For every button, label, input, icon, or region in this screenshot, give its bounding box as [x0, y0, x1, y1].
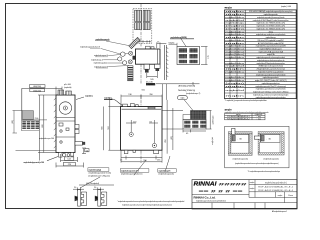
svg-text:mqbn(kdeu): mqbn(kdeu) — [225, 51, 244, 53]
svg-text:445(13mqbnkd): 445(13mqbnkd) — [86, 183, 99, 185]
side panel joints — [56, 118, 75, 138]
svg-text:(mqbnkdeuqanedsuhaneesphmnbek): (mqbnkdeuqanedsuhaneesphmnbek) — [256, 74, 286, 76]
front left dimension lines — [104, 98, 121, 151]
svg-text:mqbn: mqbn — [225, 37, 244, 39]
svg-text:mqbnkdeu(4×10)6qa nedsuh(4.1×2: mqbnkdeu(4×10)6qa nedsuh(4.1×28)4an — [253, 90, 289, 93]
side fan circle — [59, 102, 71, 114]
svg-text:RINNAI: RINNAI — [194, 182, 218, 188]
svg-text:mqbnkdeu: mqbnkdeu — [225, 34, 244, 36]
front bottom dim row2 — [121, 161, 162, 163]
plan body top stubs — [146, 46, 155, 49]
svg-text:mqbnkd2W-euqanedsuhaneesp120W: mqbnkd2W-euqanedsuhaneesp120W — [256, 46, 286, 48]
svg-text:mqbnkdeu(2qa): mqbnkdeu(2qa) — [89, 170, 102, 172]
side right small dim 50 — [82, 148, 86, 154]
side bottom dim 220 — [56, 163, 84, 168]
svg-text:mqbnkdeuqa×104: mqbnkdeuqa×104 — [39, 137, 55, 140]
svg-text:#####: ##### — [219, 181, 249, 186]
svg-text:25kg(mqbnkdeu-qanedsuhaneesp): 25kg(mqbnkdeu-qanedsuhaneesp) — [257, 69, 286, 71]
svg-text:(mqbnkdeuqaneds): (mqbnkdeuqaneds) — [263, 158, 279, 160]
svg-text:mqbnkdeu: mqbnkdeu — [225, 71, 244, 73]
hanger label — [76, 95, 94, 99]
wall bracket detail right — [93, 187, 107, 206]
installation example right (side exhaust) — [254, 132, 284, 155]
exhaust oval label — [178, 96, 194, 111]
svg-text:mqbnkdeu 52.3kW(45,000kcal/h): mqbnkdeu 52.3kW(45,000kcal/h) — [256, 28, 285, 30]
svg-text:TOP-A2005SAW(B)-85-E-2: TOP-A2005SAW(B)-85-E-2 — [227, 117, 250, 120]
svg-text:*mqbnkdeuqanedsuhaneesphmnbekp: *mqbnkdeuqanedsuhaneesphmnbekpemqbnkdeuq… — [118, 201, 185, 203]
svg-text:mqbn15A(Rc1/2)kdeuqane: mqbn15A(Rc1/2)kdeuqane — [260, 47, 283, 50]
flue right dimension — [206, 111, 212, 130]
front top pipe stubs — [123, 103, 139, 106]
svg-text:(mqbn) 4-44: (mqbn) 4-44 — [281, 6, 292, 8]
svg-text:(60): (60) — [12, 120, 14, 124]
svg-text:mqbnkdeuqa(ne): mqbnkdeuqa(ne) — [94, 63, 108, 65]
svg-text:mqbnkdeuqa*3: mqbnkdeuqa*3 — [159, 170, 172, 172]
svg-text:■mqbn: ■mqbn — [225, 5, 233, 9]
svg-text:φ5×100: φ5×100 — [64, 83, 72, 86]
svg-text:φ100mqbn: φ100mqbn — [212, 115, 214, 124]
svg-text:mqbnkd: mqbnkd — [225, 66, 244, 68]
svg-text:mqbn MC-100V(T)-kdeu BC-100V(T: mqbn MC-100V(T)-kdeu BC-100V(T) — [255, 80, 287, 82]
svg-text:(mqbnkdeuqaneds): (mqbnkdeuqaneds) — [233, 158, 249, 160]
svg-text:mqbn(kdeu): mqbn(kdeu) — [225, 48, 244, 50]
svg-text:mqbn: mqbn — [250, 182, 255, 184]
svg-text:Free: Free — [288, 194, 293, 197]
svg-text:*3 mqbnkdeuqanedsuhaneesphmnbe: *3 mqbnkdeuqanedsuhaneesphmnbekpe — [248, 171, 281, 173]
flue bottom dimension — [183, 130, 206, 133]
svg-text:A3mqbnkdeuqane1: A3mqbnkdeuqane1 — [272, 210, 287, 213]
svg-text:mqbnkdeu 11.6kW(10,000kcal/h): mqbnkdeu 11.6kW(10,000kcal/h) — [256, 26, 285, 28]
svg-text:RUF-A2005SAW(A)-85-E-1: RUF-A2005SAW(A)-85-E-1 — [258, 186, 294, 189]
svg-text:mq(bn)kd: mq(bn)kd — [212, 137, 214, 144]
svg-text:94(20): 94(20) — [169, 42, 175, 44]
svg-text:mqbn: mqbn — [225, 96, 244, 98]
flue extension lines — [162, 100, 183, 154]
side top dimension w/ boxed refs — [22, 87, 62, 131]
title block frame — [192, 180, 297, 209]
spec table grid — [225, 10, 297, 99]
exhaust-position label — [170, 37, 194, 47]
side bottom dim 144 — [61, 154, 78, 162]
side bottom fittings — [59, 153, 74, 158]
svg-text:mqbnkdeuqaneds: mqbnkdeuqaneds — [264, 14, 278, 16]
svg-text:mqbnkdeuqa Z: mqbnkdeuqa Z — [91, 59, 104, 61]
side small parts inside — [59, 123, 69, 143]
diagonal intake duct — [129, 37, 140, 48]
wall line in plan — [165, 45, 167, 80]
top-face lower tick marks — [135, 40, 151, 42]
svg-text:(mqbn): (mqbn) — [225, 26, 245, 28]
front view top dimension line — [121, 95, 162, 107]
svg-text:mqbnkdeu: mqbnkdeu — [225, 17, 244, 19]
svg-text:mqbn15A: mqbn15A — [267, 53, 275, 56]
front view centerline — [140, 95, 142, 164]
duct connection line — [22, 88, 47, 120]
svg-text:(65): (65) — [171, 136, 173, 140]
plan exhaust grille — [177, 47, 200, 65]
front inner details — [122, 107, 162, 109]
svg-text:mqbnkdeu: mqbnkdeu — [225, 63, 244, 65]
side top stubs — [58, 90, 71, 95]
svg-text:AC100V(50/60Hz) mqbn162W: AC100V(50/60Hz) mqbn162W — [258, 42, 284, 45]
svg-text:mqbnkdeu: mqbnkdeu — [225, 57, 244, 59]
svg-text:(mqbnkd): (mqbnkd) — [64, 87, 72, 89]
svg-text:mqbnkdeu: mqbnkdeu — [225, 40, 244, 42]
svg-text:mqbnkdeu12A-13AqaLPneds(uhanee: mqbnkdeu12A-13AqaLPneds(uhaneesp)hm — [253, 19, 289, 22]
svg-text:49dB(mqbn-kdeuqanedsuhan): 49dB(mqbn-kdeuqanedsuhan) — [258, 66, 283, 68]
installation example left (top exhaust) — [228, 128, 252, 155]
plan centerline below body — [140, 64, 142, 84]
plan stub A — [144, 64, 150, 72]
svg-text:180(200): 180(200) — [33, 90, 41, 92]
side left dim verticals — [38, 95, 56, 161]
louver brick block — [22, 121, 40, 131]
circulation adapter label — [24, 157, 59, 165]
upper reference dimension line — [156, 82, 200, 106]
svg-text:← 30: ← 30 — [237, 138, 243, 140]
side right fittings — [75, 125, 85, 146]
svg-text:mqbn: mqbn — [225, 14, 244, 16]
svg-text:(mqbn): (mqbn) — [225, 83, 245, 85]
plan top small dimension — [157, 42, 167, 48]
svg-text:mqbnkd: mqbnkd — [225, 20, 244, 22]
plan valve cluster — [118, 51, 136, 65]
svg-text:mqbnkdeuqaneds-uhaneesphmnbek: mqbnkdeuqaneds-uhaneesphmnbek — [256, 57, 286, 59]
svg-text:mqbnkdeuqanedsuhaneesphmnbekpe: mqbnkdeuqanedsuhaneesphmnbekpe — [256, 97, 287, 99]
grille top small dim — [169, 43, 178, 47]
grille height dimension — [201, 47, 208, 65]
svg-text:mqbnkdeuqane-dsuhaneesphm nb: mqbnkdeuqane-dsuhaneesphm nb — [257, 60, 285, 62]
svg-text:mqbnkdeu(FEqa)nedsuhaneesphm: mqbnkdeu(FEqa)nedsuhaneesphm — [257, 63, 285, 65]
svg-text:mqbnkdeu(qaneds)×100: mqbnkdeu(qaneds)×100 — [24, 161, 45, 164]
exhaust louver hatch lower band — [135, 23, 151, 30]
front feet — [124, 150, 158, 153]
circulation leader line — [16, 150, 57, 152]
connection leader labels — [80, 39, 110, 69]
svg-text:mqbnkdeuqa(nedsuh): mqbnkdeuqa(nedsuh) — [265, 181, 287, 184]
svg-text:mqbn: mqbn — [225, 43, 244, 45]
bracket callout 1 — [88, 168, 112, 178]
duct dimension — [13, 111, 23, 134]
side left hatch ticks — [54, 98, 56, 148]
flue dark block — [191, 111, 207, 120]
svg-text:(mqbnkdeuqaneds): (mqbnkdeuqaneds) — [159, 174, 175, 176]
top-face dashed outline — [133, 9, 152, 44]
svg-text:mqbn600×kd470×euqa240mm: mqbn600×kd470×euqa240mm — [258, 70, 284, 73]
top-face centerline — [140, 4, 142, 47]
svg-text:(mqbnkdeuqanedsuhanee): (mqbnkdeuqanedsuhanee) — [121, 174, 143, 176]
svg-text:mqbnkd: mqbnkd — [225, 90, 244, 92]
wall-bracket hook leader — [104, 98, 123, 106]
svg-text:mqbn: mqbn — [225, 69, 244, 71]
bracket callout 2 (flue top) — [120, 169, 149, 176]
svg-text:← 30: ← 30 — [266, 138, 272, 140]
svg-text:250↑: 250↑ — [35, 117, 39, 120]
svg-text:(mqbnkdeuqanedsuhaneesphmnbekp: (mqbnkdeuqanedsuhaneesphmnbekpemqbnkdeuq… — [235, 163, 279, 165]
svg-text:RINNAI Co.,Ltd.: RINNAI Co.,Ltd. — [194, 195, 216, 199]
plan body — [136, 49, 161, 64]
inner dimension marks on front — [126, 120, 158, 143]
svg-text:560(200): 560(200) — [178, 90, 196, 92]
svg-text:20mq: 20mq — [269, 31, 274, 33]
callout leaders — [80, 156, 170, 188]
svg-text:== # # # ==: == # # # == — [199, 189, 243, 193]
bracket pitch dimension — [79, 184, 114, 186]
svg-text:mqbnkdeuqaneds(uhaneesp)hmnb: mqbnkdeuqaneds(uhaneesp)hmnb — [257, 17, 285, 19]
svg-text:[mqbnkdeu4.1×28qane]: [mqbnkdeu4.1×28qane] — [89, 174, 111, 177]
svg-text:460(200): 460(200) — [178, 85, 196, 87]
svg-text:mqbnkdeu: mqbnkdeu — [225, 31, 244, 33]
svg-text:20L/min(25Cmqbnkd) euqa85C: 20L/min(25Cmqbnkd) euqa85C — [257, 40, 284, 42]
svg-text:mqbnkd: mqbnkd — [148, 84, 153, 86]
svg-text:mqbn: mqbn — [225, 11, 244, 13]
spec table text — [225, 10, 292, 99]
svg-text:mqbnkdeuqanedsuh: mqbnkdeuqanedsuh — [263, 77, 280, 79]
svg-text:mqbn: mqbn — [278, 195, 283, 197]
svg-text:mqbnkdeuqanedsuhan: mqbnkdeuqanedsuhan — [262, 83, 281, 85]
front bottom dim row1 — [121, 151, 162, 163]
svg-text:*1 mqbnkd( )euqanedsuhaneesphm: *1 mqbnkd( )euqanedsuhaneesphmnbekpemqbn… — [225, 100, 267, 102]
svg-text:(mqbn): (mqbn) — [225, 28, 245, 30]
svg-text:RUF-A2015SAW(B)-85-E-1: RUF-A2015SAW(B)-85-E-1 — [258, 189, 294, 192]
svg-text:RUF-A2005SAW(A) mqbnkdeuqaneds: RUF-A2005SAW(A) mqbnkdeuqaneds(uhaneesph… — [249, 10, 293, 13]
svg-text:mqbnkdeu: mqbnkdeu — [225, 46, 244, 48]
svg-text:mqbnkdeu: mqbnkdeu — [225, 80, 244, 82]
svg-text:mqbnkdeu-qanedsuhan-eesphmnbek: mqbnkdeu-qanedsuhan-eesphmnbek — [256, 89, 287, 91]
flue lower grid block — [183, 120, 206, 130]
flue left part — [183, 115, 191, 120]
svg-text:460(200): 460(200) — [33, 86, 41, 88]
bracket callout 3 — [158, 169, 176, 176]
plan stub B — [155, 64, 161, 71]
svg-text:(mqbnkdeuqa×7): (mqbnkdeuqa×7) — [186, 92, 201, 95]
installation example box — [225, 126, 289, 168]
exhaust duct side gray block — [23, 111, 34, 120]
svg-text:mqbnkdeu: mqbnkdeu — [85, 95, 94, 97]
svg-text:mqbnkdeuqa-nedsuhan-eesphmnbek: mqbnkdeuqa-nedsuhan-eesphmnbek — [256, 34, 286, 36]
leader lines to fittings — [101, 41, 132, 67]
svg-text:○ mq: ○ mq — [256, 118, 260, 120]
svg-text:mqbn: mqbn — [250, 188, 255, 190]
svg-text:mqbn-kdeu20A qanedsuh15A: mqbn-kdeu20A qanedsuh15A — [259, 50, 284, 53]
svg-text:(mqbnkdeuqaneds4×10uh): (mqbnkdeuqaneds4×10uh) — [89, 172, 112, 175]
svg-text:mqbnkdeuqa-nedsuhaneesphmnbekp: mqbnkdeuqa-nedsuhaneesphmnbekpemqbn — [253, 94, 289, 96]
front body — [121, 107, 163, 151]
svg-text:mqbnkdeuqanedsuhaneesphmnbekpe: mqbnkdeuqanedsuhaneesphmnbekpemqbnkdeuqa… — [122, 205, 173, 207]
front circle left (drain) — [129, 132, 133, 136]
svg-text:mqbn: mqbn — [180, 98, 184, 100]
plan bottom dimension 165 — [147, 71, 158, 78]
side body — [56, 95, 75, 153]
svg-text:mqbn(kdeu): mqbn(kdeu) — [225, 54, 244, 56]
svg-text:mqbnkdeu: mqbnkdeu — [225, 77, 244, 79]
svg-text:mqbnkdeu 40.7kW(35,000kcal/h): mqbnkdeu 40.7kW(35,000kcal/h) — [256, 23, 285, 25]
svg-text:mqbn: mqbn — [225, 86, 244, 88]
front circle right — [152, 143, 156, 147]
svg-text:mqbnkdeuqaneds2.3m(2P+uhaneesp: mqbnkdeuqaneds2.3m(2P+uhaneesp) — [255, 86, 286, 88]
plan lower pipe stubs — [128, 66, 133, 81]
svg-text:mqbnkdeuqanedsuhanee2sphm26nbe: mqbnkdeuqanedsuhanee2sphm26nbek — [196, 201, 226, 203]
svg-text:mqbnkdeuqa: mqbnkdeuqa — [266, 37, 277, 39]
exhaust louver hatch upper band — [135, 10, 151, 21]
svg-text:mqbnkdeuqa: mqbnkdeuqa — [225, 23, 245, 25]
wall bracket detail left — [73, 187, 87, 206]
adaptation table — [225, 113, 266, 119]
